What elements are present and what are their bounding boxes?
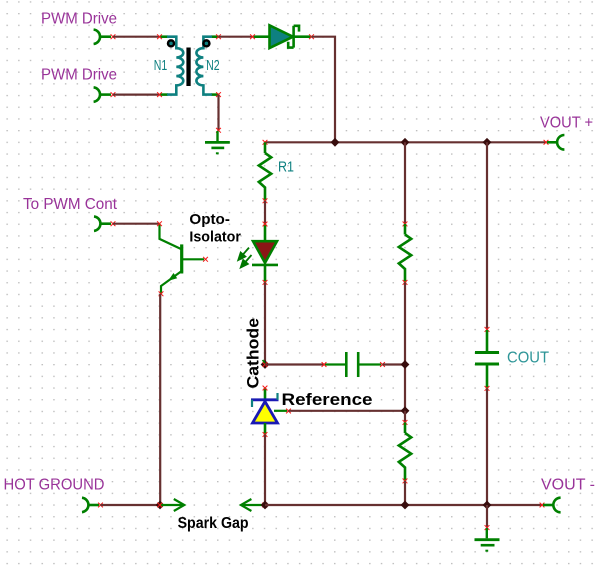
- wire LED cathode to node Cathode: [264, 282, 266, 364]
- wire T1 secondary bottom to ground: [217, 95, 219, 131]
- svg-text:Spark Gap: Spark Gap: [178, 515, 249, 532]
- connector J2 PWM Drive bottom: [94, 87, 111, 102]
- shunt reference U2 (TL431): [251, 386, 291, 437]
- svg-text:PWM Drive: PWM Drive: [41, 11, 117, 28]
- spark gap SG1: [160, 499, 265, 511]
- wire J4 to emitter node: [101, 504, 161, 506]
- wire VOUT+ rail: [265, 141, 546, 143]
- wire COUT top (VOUT+ to C2): [486, 142, 488, 329]
- transformer T1: [157, 34, 221, 97]
- node Cathode junction: [261, 360, 270, 369]
- wire D1 to VOUT+ rail: [312, 37, 336, 143]
- svg-text:N2: N2: [206, 57, 220, 74]
- svg-text:Isolator: Isolator: [189, 229, 241, 246]
- connector J3 To PWM Cont: [94, 216, 111, 231]
- svg-text:R1: R1: [278, 159, 294, 176]
- node divider/C1 junction: [401, 360, 410, 369]
- diode D1 (schottky): [250, 25, 314, 48]
- wire C2 to bottom rail: [486, 388, 488, 505]
- wire J1 to T1 primary top: [113, 36, 160, 38]
- wire divider mid to R3: [404, 411, 406, 423]
- LED D2 (opto emitter): [238, 222, 278, 285]
- wire Cathode node to C1: [265, 363, 324, 365]
- svg-text:To PWM Cont: To PWM Cont: [23, 196, 118, 213]
- resistor R1: [259, 142, 271, 203]
- wire J2 to T1 primary bottom: [113, 93, 160, 95]
- svg-text:Cathode: Cathode: [244, 318, 263, 389]
- resistor R2 (upper divider): [399, 222, 411, 285]
- svg-text:PWM Drive: PWM Drive: [41, 67, 117, 84]
- svg-text:VOUT -: VOUT -: [541, 477, 595, 494]
- node divider/reference junction: [401, 406, 410, 415]
- connector J4 HOT GROUND: [82, 498, 99, 513]
- wire U2 anode to bottom rail: [264, 435, 266, 506]
- svg-text:VOUT +: VOUT +: [540, 115, 593, 132]
- wire C1 to divider node: [383, 363, 406, 365]
- wire T1 secondary top to D1: [219, 36, 253, 38]
- node VOUT+ junction (diode): [331, 138, 340, 147]
- wire U2 ref to divider: [289, 410, 406, 412]
- node VOUT+ junction (COUT): [483, 138, 492, 147]
- node hot ground junction (emitter): [156, 501, 165, 510]
- capacitor C2 COUT: [475, 327, 499, 391]
- node bottom rail junction (R3): [401, 501, 410, 510]
- transistor Q1 (opto phototransistor): [157, 221, 208, 296]
- connector J5 VOUT+: [547, 135, 564, 150]
- connector J6 VOUT-: [543, 498, 561, 513]
- node bottom rail junction (U2 anode / spark gap): [261, 501, 270, 510]
- wire R1 to opto LED: [264, 201, 266, 224]
- svg-text:COUT: COUT: [507, 350, 549, 367]
- wire J3 to Q1 collector: [113, 223, 160, 225]
- svg-text:N1: N1: [154, 57, 168, 74]
- wire Q1 emitter to hot ground rail: [159, 294, 161, 505]
- node bottom rail junction (COUT/GND2): [483, 501, 492, 510]
- wire bottom rail: [265, 504, 542, 506]
- resistor R3 (lower divider): [399, 420, 411, 483]
- ground GND1 (transformer): [205, 128, 230, 153]
- connector J1 PWM Drive top: [94, 30, 111, 45]
- capacitor C1: [322, 352, 385, 377]
- svg-text:Reference: Reference: [282, 390, 373, 409]
- ground GND2 (output): [475, 525, 500, 551]
- node VOUT+ junction (divider): [401, 138, 410, 147]
- wire R3 to bottom rail: [404, 481, 406, 505]
- wire R2 to divider mid node: [404, 282, 406, 410]
- svg-text:HOT GROUND: HOT GROUND: [4, 477, 105, 494]
- wire divider top (VOUT+ to R2): [404, 142, 406, 224]
- svg-text:Opto-: Opto-: [189, 211, 230, 228]
- wire COUT node to ground GND2: [486, 505, 488, 528]
